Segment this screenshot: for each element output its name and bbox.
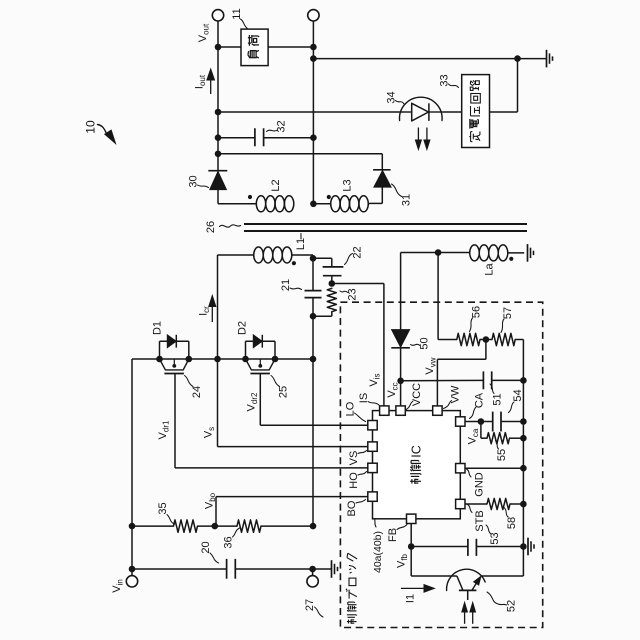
load box 11 — [241, 29, 268, 66]
wire Vcc supply line — [400, 253, 402, 330]
diode 50 — [392, 330, 410, 348]
wire load left — [218, 46, 241, 48]
wire auxiliary line — [401, 252, 470, 254]
svg-text:58: 58 — [506, 517, 518, 529]
svg-text:52: 52 — [506, 600, 518, 612]
wire top ground line — [313, 58, 546, 60]
pin IS — [380, 406, 389, 415]
pin BO — [368, 492, 377, 501]
input line with capacitor 20 — [132, 568, 227, 570]
primary left rail Vs — [217, 255, 219, 447]
wire FB line — [410, 524, 412, 577]
arrow Iout — [210, 79, 212, 94]
svg-text:L3: L3 — [342, 179, 354, 191]
wire Vvw feed — [437, 253, 439, 340]
wire LED line — [218, 111, 404, 113]
wire LED to regulator — [444, 111, 462, 113]
ground aux — [527, 244, 529, 262]
arrow I1 — [401, 587, 425, 589]
capacitor 53 — [411, 546, 468, 548]
label control block (seigyo block) — [346, 553, 357, 624]
gate line Vdr2 / LO — [259, 374, 261, 426]
svg-text:54: 54 — [512, 389, 524, 401]
resistor 35 — [132, 525, 174, 527]
capacitor 51 — [401, 379, 484, 381]
arrow Icr — [211, 306, 213, 322]
resistor 55 — [480, 422, 482, 439]
wire load right — [268, 46, 313, 48]
pin VW — [433, 406, 442, 415]
resonant capacitor 21 — [305, 290, 322, 292]
svg-text:20: 20 — [200, 541, 212, 553]
svg-text:51: 51 — [492, 393, 504, 405]
primary right rail — [312, 255, 314, 291]
resistor 56 — [457, 333, 480, 345]
diode 30 — [208, 170, 227, 172]
control IC 40a(40b) box — [373, 411, 461, 519]
wire to diode 31 — [218, 153, 382, 155]
right vertical rail (signal ground) — [522, 340, 524, 577]
wire VW divider tap — [485, 340, 487, 360]
light arrows into 52 — [464, 611, 466, 624]
control block dashed border 27 — [340, 302, 542, 627]
wire GND pin — [465, 467, 523, 469]
svg-text:32: 32 — [276, 120, 288, 132]
svg-text:D2: D2 — [237, 321, 249, 335]
svg-text:34: 34 — [386, 91, 398, 103]
wire STB pin — [465, 503, 487, 505]
svg-text:VCC: VCC — [411, 383, 423, 406]
MOSFET 24 with body diode D1 — [159, 341, 161, 359]
svg-text:57: 57 — [502, 307, 514, 319]
svg-text:D1: D1 — [152, 321, 164, 335]
ground signal — [527, 538, 529, 556]
resistor 57 — [492, 333, 515, 345]
svg-text:L2: L2 — [270, 179, 282, 191]
svg-text:40a(40b): 40a(40b) — [372, 531, 384, 573]
capacitor 32 — [218, 137, 255, 139]
svg-text:56: 56 — [471, 306, 483, 318]
svg-text:I1: I1 — [405, 594, 417, 603]
svg-text:27: 27 — [304, 599, 316, 611]
LED light arrows — [417, 128, 419, 142]
svg-text:11: 11 — [231, 8, 243, 19]
wire right output rail — [312, 21, 314, 205]
terminal Vin — [131, 569, 133, 576]
svg-text:STB: STB — [474, 510, 486, 531]
svg-text:30: 30 — [188, 175, 200, 187]
svg-text:36: 36 — [223, 536, 235, 548]
node L2-L3 — [310, 201, 317, 208]
wire Vis sense line — [332, 283, 384, 285]
terminal output return — [308, 10, 319, 21]
svg-text:FB: FB — [387, 528, 399, 542]
svg-text:25: 25 — [278, 386, 290, 398]
svg-text:La: La — [484, 263, 496, 276]
pin CA — [456, 417, 465, 426]
wire BO / Vbo — [215, 497, 217, 526]
transformer core 26 — [244, 223, 527, 225]
winding L3 — [313, 203, 330, 205]
svg-text:CA: CA — [474, 392, 486, 408]
pin FB — [407, 514, 416, 523]
terminal input return — [312, 569, 314, 576]
constant-voltage circuit box 33 — [462, 75, 490, 148]
diode 31 — [373, 169, 391, 171]
phototransistor 52 — [411, 575, 457, 577]
wire HO — [175, 467, 368, 469]
pin HO — [368, 463, 377, 472]
resistor 58 — [487, 498, 510, 509]
pin GND — [456, 464, 465, 473]
left input rail — [131, 359, 133, 569]
MOSFET 25 with body diode D2 — [245, 341, 247, 359]
svg-text:26: 26 — [205, 221, 217, 233]
capacitor 54 — [465, 421, 493, 423]
svg-text:50: 50 — [419, 337, 431, 349]
ground input — [313, 568, 331, 570]
svg-text:31: 31 — [401, 194, 413, 206]
svg-text:55: 55 — [496, 449, 508, 461]
pin VCC — [396, 406, 405, 415]
wire regulator right — [490, 111, 518, 113]
svg-text:21: 21 — [280, 279, 292, 291]
svg-text:L1: L1 — [295, 238, 307, 250]
svg-text:GND: GND — [474, 472, 486, 497]
wire VS — [218, 446, 368, 448]
winding L1 — [218, 254, 254, 256]
winding L2 — [256, 196, 265, 212]
svg-text:LO: LO — [345, 401, 357, 416]
main bus — [132, 358, 313, 360]
gate line Vdr1 — [174, 374, 176, 468]
wire left output rail — [217, 21, 219, 171]
winding La — [470, 245, 480, 261]
ground top right — [546, 50, 548, 68]
svg-text:35: 35 — [157, 502, 169, 514]
terminal Vout — [212, 10, 223, 21]
photo-LED 34 — [400, 97, 443, 120]
svg-text:IC: IC — [409, 445, 423, 458]
svg-text:10: 10 — [84, 120, 98, 134]
svg-text:22: 22 — [352, 246, 364, 258]
switch capacitor 22 — [313, 257, 332, 259]
sense resistor 23 — [327, 288, 336, 311]
svg-text:23: 23 — [347, 288, 359, 300]
resistor 36 — [237, 520, 261, 532]
pin STB — [456, 499, 465, 508]
pin LO — [368, 421, 377, 430]
pin VS — [368, 442, 377, 451]
svg-text:24: 24 — [191, 386, 203, 398]
